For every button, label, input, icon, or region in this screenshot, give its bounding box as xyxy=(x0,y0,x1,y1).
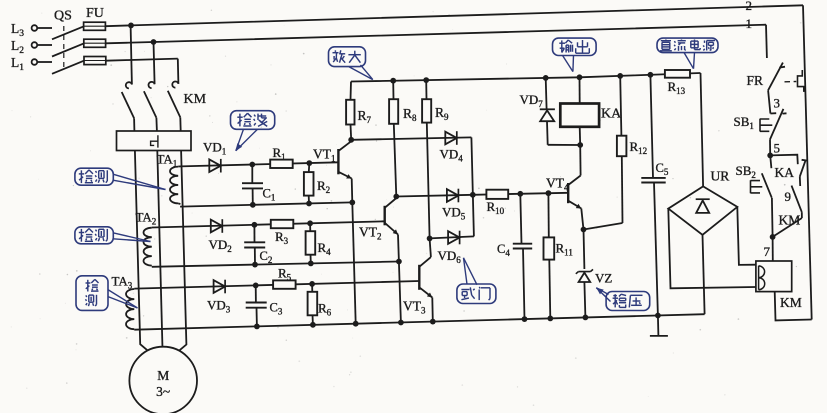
terminal L3 xyxy=(11,21,37,39)
fuse FU phase 1 xyxy=(84,57,106,65)
wire VT2 emitter to ground xyxy=(399,262,401,323)
wire row2 bottom rail xyxy=(152,259,402,268)
callout 检测 1 (sense) xyxy=(75,168,166,189)
diode VD6 label xyxy=(438,248,462,265)
svg-text:M: M xyxy=(157,368,169,383)
resistor R3 label xyxy=(275,229,289,246)
resistor R7 xyxy=(346,82,354,143)
svg-text:VZ: VZ xyxy=(595,271,612,286)
ground symbol xyxy=(650,316,668,336)
svg-text:UR: UR xyxy=(711,169,730,184)
contactor KM main contact 1 xyxy=(122,82,134,118)
wire bus to bridge xyxy=(701,73,704,186)
switch QS label xyxy=(54,9,72,24)
callout 稳压 (voltage reg) xyxy=(596,288,649,311)
capacitor C4 label xyxy=(497,242,510,258)
contactor coil KM label xyxy=(780,295,802,310)
wire phase3 to motor xyxy=(179,151,186,351)
terminal L1 xyxy=(11,55,37,73)
wire node7 to coil xyxy=(772,237,774,261)
wire FR to SB1 xyxy=(768,90,770,113)
node 1 label xyxy=(746,16,753,31)
resistor R11 label xyxy=(556,241,573,258)
resistor R9 xyxy=(422,80,432,241)
wire L1 row xyxy=(106,59,178,61)
wire L3 lead xyxy=(37,27,52,29)
current transformer TA2 label xyxy=(136,210,157,227)
relay KA label xyxy=(601,107,622,122)
wire bus 2 (L3 phase, top) xyxy=(105,5,803,28)
resistor R2 xyxy=(304,163,314,203)
svg-text:FU: FU xyxy=(86,6,104,21)
svg-text:KM: KM xyxy=(779,213,801,228)
contact KM aux label xyxy=(779,213,801,228)
svg-text:9: 9 xyxy=(785,189,792,204)
capacitor C5 xyxy=(641,75,665,316)
wire contact3 to box xyxy=(179,117,181,131)
resistor R2 label xyxy=(317,178,330,195)
svg-text:3~: 3~ xyxy=(156,384,170,399)
node 5 xyxy=(767,141,780,159)
transistor VT3 xyxy=(419,257,432,298)
callout 检测 3 (sense) xyxy=(76,276,138,311)
svg-text:FR: FR xyxy=(747,73,764,88)
contact KM (aux) xyxy=(773,186,802,237)
capacitor C2 xyxy=(244,225,265,265)
diode VD5 xyxy=(447,189,459,203)
switch QS blade phase 1 xyxy=(52,61,84,74)
transistor VT3 label xyxy=(403,299,426,316)
callout 直流电源 (DC supply) xyxy=(657,38,718,69)
current transformer TA1 label xyxy=(157,152,178,169)
wire row2 top rail xyxy=(152,220,385,227)
current transformer TA3 label xyxy=(112,274,133,291)
switch QS blade phase 2 xyxy=(52,43,84,56)
resistor R12 xyxy=(584,76,627,230)
transistor VT4 label xyxy=(546,176,569,193)
current transformer TA3 xyxy=(126,289,134,329)
diode VD4 xyxy=(445,131,457,145)
wire VD6 anode rail xyxy=(430,236,474,238)
pushbutton SB1 label xyxy=(734,114,754,131)
resistor R1 xyxy=(270,160,293,168)
wire phase2 to motor xyxy=(157,151,162,349)
resistor R6 label xyxy=(318,301,332,318)
contactor KM label xyxy=(184,92,207,107)
wire VT1 emitter to ground xyxy=(352,202,355,323)
contactor coil KM box xyxy=(756,261,792,292)
wire SB1 to node5 xyxy=(769,139,771,155)
resistor R6 xyxy=(308,284,318,325)
capacitor C5 label xyxy=(656,161,669,177)
wire VD4 anode rail xyxy=(351,137,471,139)
resistor R13 xyxy=(665,70,690,78)
callout 检波 (detection) xyxy=(231,111,275,151)
pushbutton SB2 label xyxy=(736,163,756,180)
pushbutton SB1 (stop) xyxy=(760,109,787,139)
node 7 xyxy=(764,234,776,259)
svg-text:QS: QS xyxy=(54,9,72,24)
diode VD7 xyxy=(540,78,583,148)
current transformer TA2 xyxy=(144,228,152,266)
wire OR output column xyxy=(470,137,476,236)
wire VT3 collector xyxy=(430,238,431,257)
terminal L2 xyxy=(11,38,37,56)
wire contact2 to box xyxy=(155,118,158,131)
resistor R8 label xyxy=(403,106,417,123)
wire amplifier supply bus xyxy=(351,72,701,84)
svg-text:KM: KM xyxy=(780,295,802,310)
svg-text:5: 5 xyxy=(774,141,781,156)
resistor R5 label xyxy=(278,266,292,283)
contactor KM main contact 3 xyxy=(168,82,181,118)
wire phase2 drop xyxy=(154,42,155,84)
resistor R10 xyxy=(486,190,508,199)
capacitor C3 label xyxy=(270,301,283,317)
thermal relay FR contact xyxy=(768,63,804,92)
zener diode VZ xyxy=(576,269,593,317)
wire bridge left vertex to KM coil xyxy=(668,209,756,289)
transistor VT1 xyxy=(338,140,352,203)
resistor R4 xyxy=(306,223,316,263)
callout 或门 (OR gate) xyxy=(457,258,496,304)
wire node5 to KA contact xyxy=(770,155,798,165)
diode VD1 label xyxy=(203,140,226,157)
capacitor C3 xyxy=(246,285,267,326)
diode VD7 label xyxy=(520,92,544,109)
wire row1 bottom rail xyxy=(180,200,355,208)
diode VD5 label xyxy=(442,205,466,222)
wire row1 top rail xyxy=(180,160,338,167)
fuse FU phase 2 xyxy=(84,39,106,47)
transistor VT2 label xyxy=(359,225,382,242)
wire phase1 to motor xyxy=(135,151,148,351)
wire phase3 drop xyxy=(177,59,180,84)
diode VD3 xyxy=(214,280,226,294)
wire ground bus xyxy=(134,313,704,330)
resistor R10 label xyxy=(487,199,505,216)
relay coil KA xyxy=(560,77,599,145)
wire bus1 to FR xyxy=(765,25,768,58)
diode VD1 xyxy=(209,159,221,173)
wire bridge bottom to ground bus xyxy=(703,235,705,314)
wire VT4 emitter node xyxy=(581,227,587,269)
svg-text:7: 7 xyxy=(764,244,771,259)
resistor R1 label xyxy=(273,145,286,162)
resistor R11 xyxy=(544,193,555,318)
bridge rectifier UR xyxy=(668,186,737,234)
diode VD2 label xyxy=(209,237,232,254)
fuse FU phase 3 xyxy=(84,22,106,30)
callout 检测 2 (sense) xyxy=(75,227,151,244)
wire L2 lead xyxy=(37,44,52,46)
wire VT3 emitter to ground xyxy=(431,298,434,322)
wire R10 rail xyxy=(473,190,568,196)
callout 输出 (output) xyxy=(553,38,597,72)
contactor KM main contact 2 xyxy=(144,82,157,118)
wire L1 lead xyxy=(37,61,52,63)
diode VD6 xyxy=(448,231,460,245)
pushbutton SB2 (start) xyxy=(751,155,773,237)
bridge UR label xyxy=(711,169,730,184)
thermal relay FR label xyxy=(747,73,764,88)
wire row3 top rail xyxy=(134,281,419,289)
resistor R13 label xyxy=(668,79,686,96)
wire bus 1 (L2 phase) xyxy=(106,25,766,45)
svg-text:1: 1 xyxy=(746,16,753,31)
svg-text:2: 2 xyxy=(746,0,753,13)
svg-text:KA: KA xyxy=(601,107,622,122)
wire bridge right vertex to KM coil xyxy=(737,207,756,265)
capacitor C1 label xyxy=(263,187,276,203)
node 2 label xyxy=(746,0,753,13)
resistor R7 label xyxy=(358,108,372,125)
resistor R5 xyxy=(273,280,296,288)
diode VD2 xyxy=(211,219,223,233)
motor M 3~ xyxy=(129,347,197,413)
wire coil to bus2 xyxy=(775,292,812,321)
capacitor C1 xyxy=(242,165,263,205)
callout 放大 (amplify) xyxy=(329,47,373,80)
capacitor C2 label xyxy=(260,249,273,265)
capacitor C4 xyxy=(513,194,532,319)
current transformer TA1 xyxy=(170,166,181,204)
contact KA label xyxy=(775,165,795,180)
contact KA (hold) xyxy=(800,160,807,186)
transistor VT2 xyxy=(385,197,399,262)
resistor R12 label xyxy=(630,139,648,156)
resistor R9 label xyxy=(435,105,449,122)
node 3 label xyxy=(774,96,781,111)
resistor R3 xyxy=(271,220,294,228)
svg-text:3: 3 xyxy=(774,96,781,111)
zener VZ label xyxy=(595,271,612,286)
diode VD4 label xyxy=(440,147,464,164)
wire VD5 anode rail xyxy=(396,195,473,197)
svg-text:KA: KA xyxy=(775,165,795,180)
fuse FU label xyxy=(86,6,104,21)
thermal relay FR heater box xyxy=(117,131,192,151)
switch QS linkage dashed line xyxy=(63,26,65,69)
diode VD3 label xyxy=(207,298,231,315)
transistor VT4 xyxy=(568,145,583,230)
node 9 label xyxy=(785,189,792,204)
wire phase1 drop xyxy=(131,25,132,84)
wire contact1 to box xyxy=(133,118,135,131)
resistor R4 label xyxy=(318,240,332,257)
svg-text:KM: KM xyxy=(184,92,207,107)
resistor R8 xyxy=(389,81,399,200)
transistor VT1 label xyxy=(313,147,336,164)
switch QS blade phase 3 xyxy=(52,26,84,39)
wire bus 2 right vertical xyxy=(803,5,812,319)
